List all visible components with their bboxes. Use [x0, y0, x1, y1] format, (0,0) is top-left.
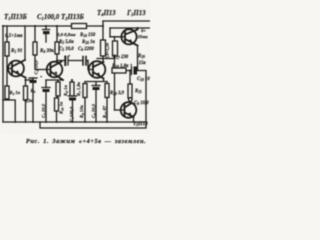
resistor R13 (series in supply rail) [72, 24, 87, 29]
resistor R9 [83, 84, 87, 98]
wire T1 emitter [25, 78, 27, 87]
wire top-right inner rail [110, 27, 150, 29]
wire T1 collector [24, 26, 26, 60]
capacitor C2 [29, 77, 37, 79]
capacitor C7 [69, 95, 77, 97]
wire R20 feed [129, 71, 131, 85]
wire T4 collector to inner rail [137, 28, 139, 30]
wire bottom ground rail [3, 121, 146, 123]
resistor R1 [6, 26, 8, 42]
capacitor C4 (rail decoupling) [43, 26, 50, 30]
capacitor C8 [92, 85, 100, 87]
wire interstage [57, 60, 88, 62]
resistor R7 [71, 80, 73, 82]
transistor T4 [121, 29, 137, 45]
resistor R5 (T2 collector load) [56, 26, 58, 42]
resistor R6 (T2 emitter) [56, 82, 60, 96]
node rail corner [102, 25, 104, 27]
wire T4 base [110, 36, 125, 38]
transistor T1 [8, 60, 25, 78]
node emitter T1 [25, 79, 27, 81]
wire emitter to C2 [26, 78, 34, 80]
node rail [45, 25, 47, 27]
resistor R10 [55, 98, 59, 111]
wire top-right outer rail [103, 20, 150, 22]
resistor R12 [105, 84, 109, 98]
resistor R4 (T2 base divider) [34, 26, 36, 42]
rail junction nodes [14, 121, 108, 123]
wire vertical feed x=103 [102, 21, 104, 62]
node A [2, 25, 4, 27]
wire T3 base [88, 61, 93, 70]
wire vertical feed x=110 [109, 28, 111, 37]
transistor T5 [121, 102, 137, 118]
resistor R20 [128, 84, 132, 98]
resistor R18 (horizontal) [112, 68, 126, 73]
wire top rail left [3, 25, 103, 27]
wire left edge input [2, 26, 4, 122]
scan noise [0, 0, 150, 134]
capacitor C10 [131, 67, 133, 75]
transistor T2 [47, 62, 63, 81]
wire T5 base [115, 109, 125, 111]
capacitor C3 [42, 80, 50, 88]
svg-text:Рис. 1. Зажим «+4÷5в — заземле: Рис. 1. Зажим «+4÷5в — заземлен. [26, 138, 146, 145]
resistor R17 (base feed) [114, 37, 116, 71]
wire R2 to ground jog [3, 99, 15, 122]
resistor R15 (bias, left) [101, 40, 106, 56]
wire T5 emitter [133, 117, 135, 122]
wire base bias row [115, 71, 147, 123]
capacitor C5 [64, 57, 66, 66]
wire T2 emitter [46, 80, 63, 82]
capacitor C6 [83, 57, 86, 66]
resistor R3 (T1 emitter) [24, 86, 28, 100]
wire T3 emitter row [85, 79, 107, 86]
node collector T2 [56, 60, 58, 62]
terminal circle [130, 101, 132, 103]
transistor T3 [89, 61, 106, 78]
wire collector node row [97, 58, 115, 60]
wire T4 emitter [137, 46, 139, 71]
resistor R2 [5, 86, 9, 99]
wire R1 to base [7, 56, 12, 86]
wire bottom return rail [40, 122, 146, 128]
